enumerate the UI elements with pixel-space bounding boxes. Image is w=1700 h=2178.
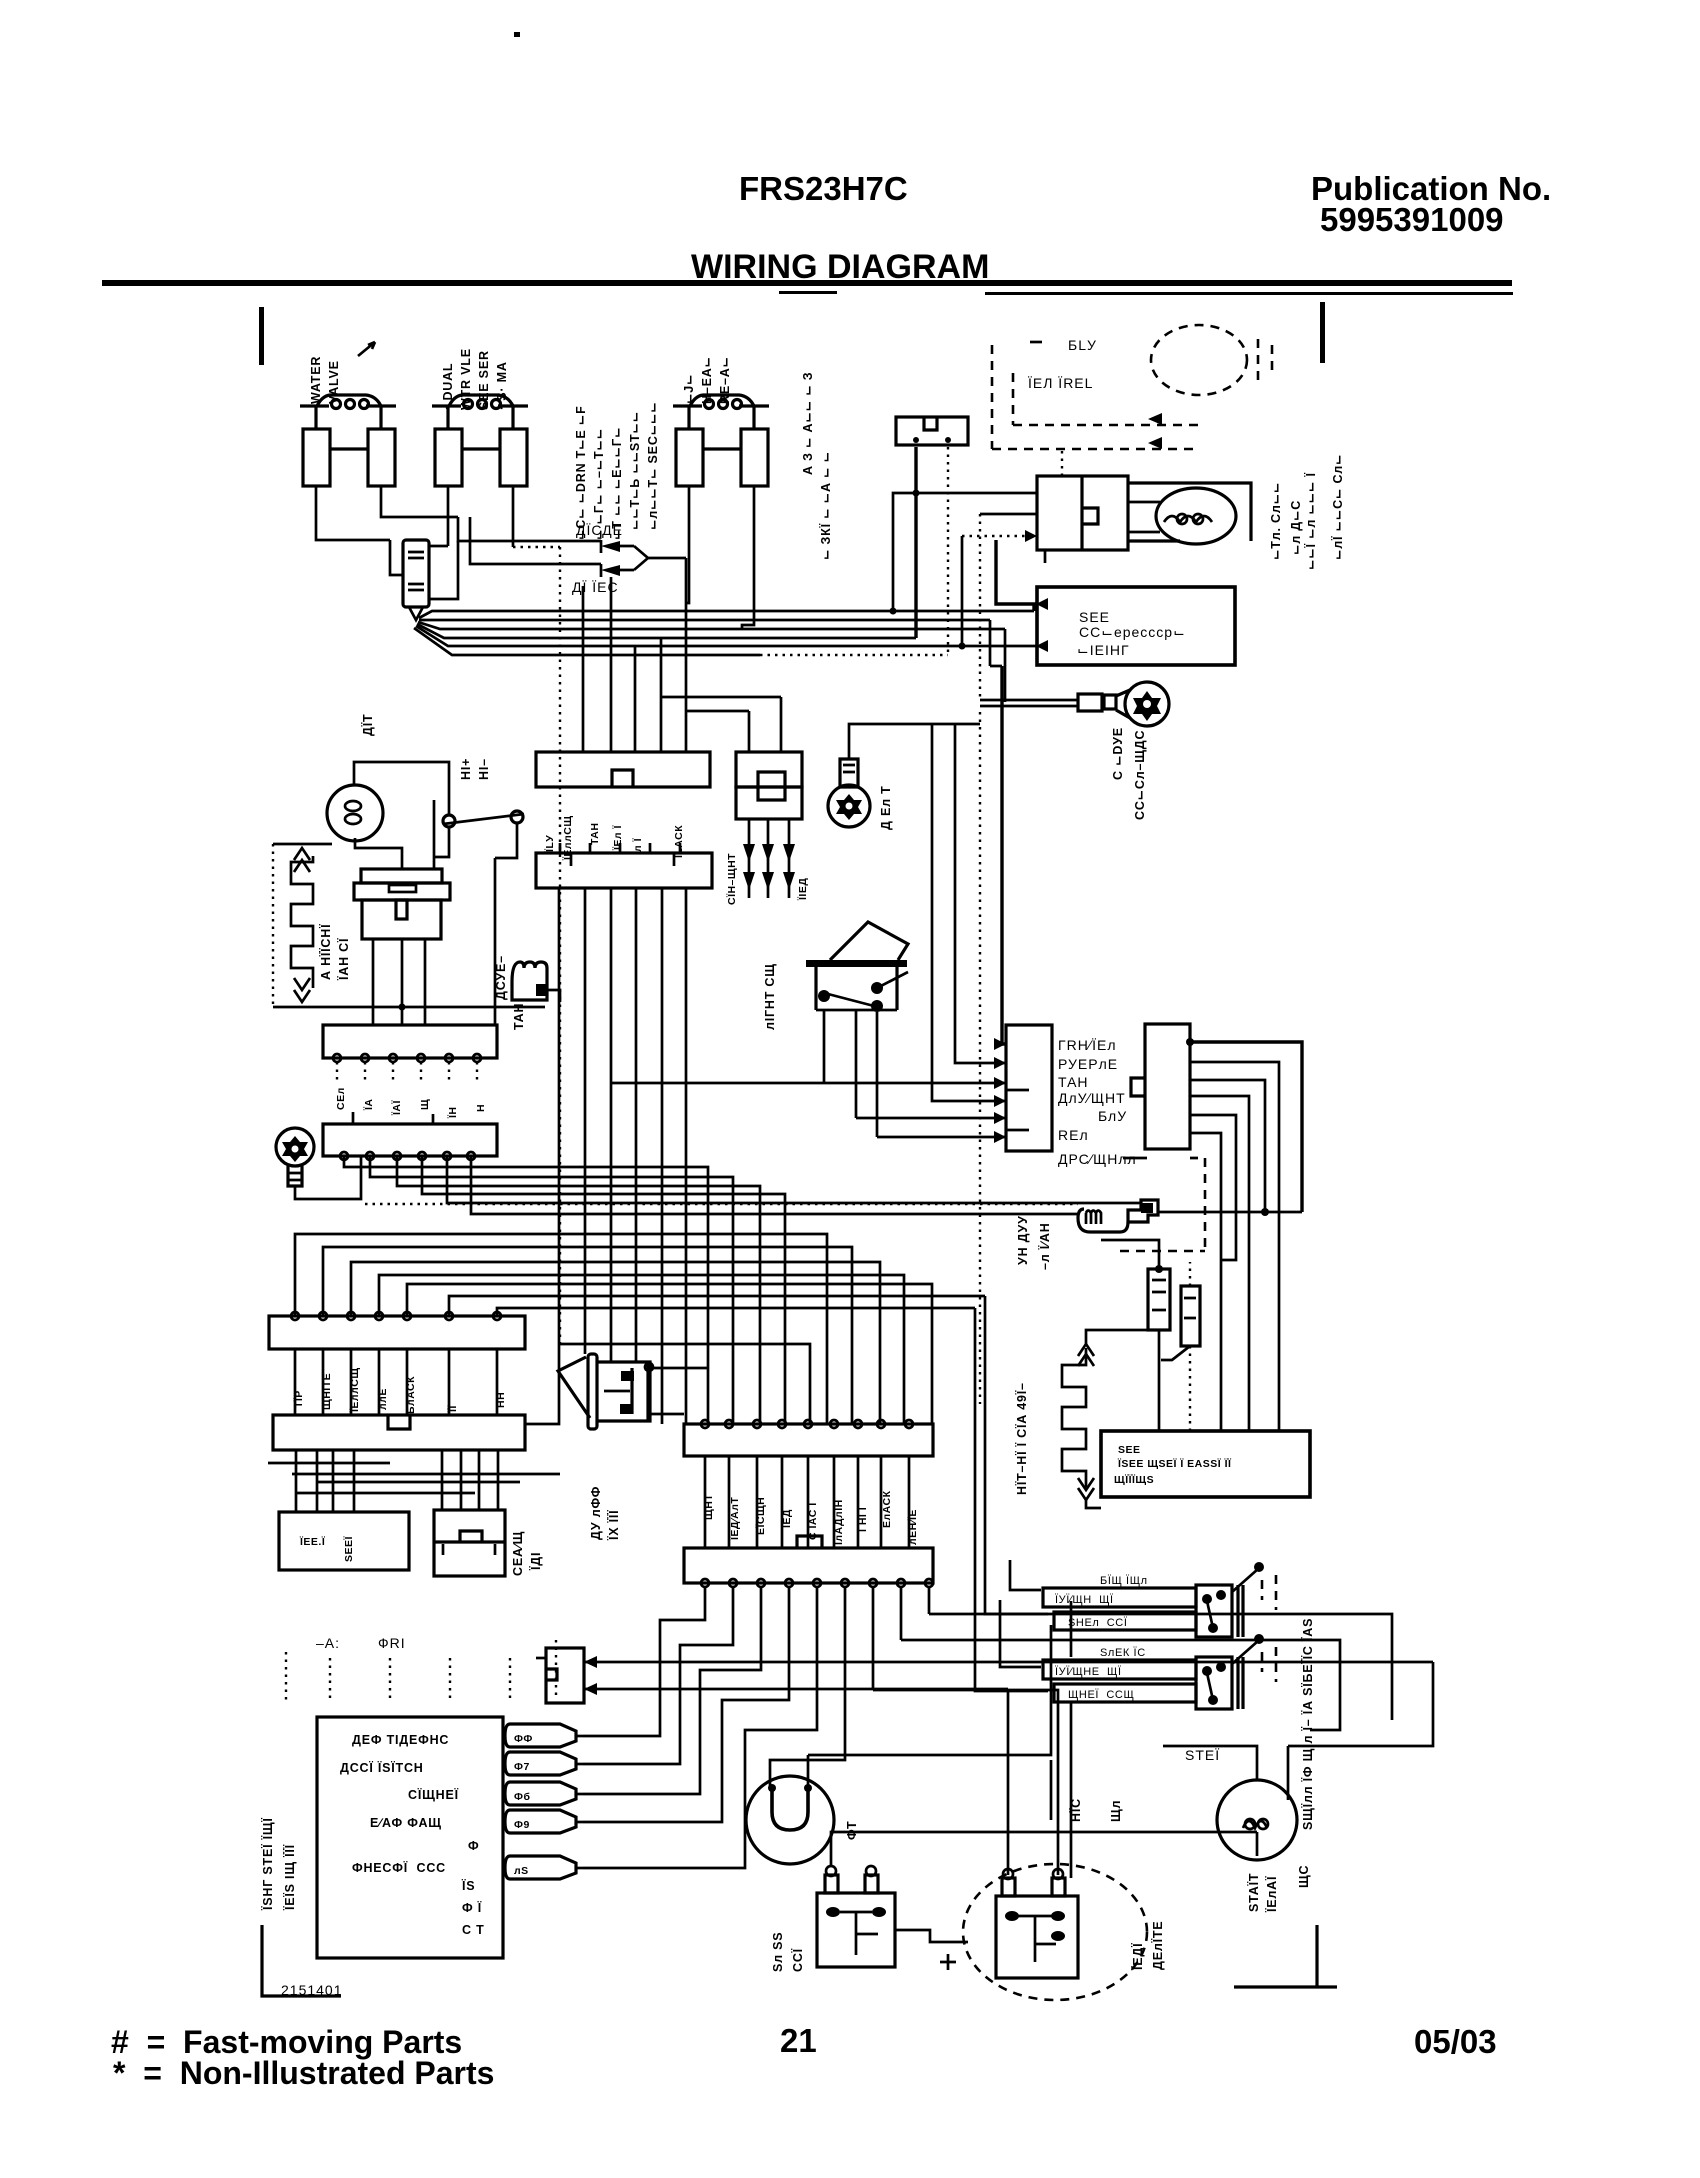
svg-text:С ⌙DУЕ: С ⌙DУЕ	[1111, 727, 1125, 780]
svg-text:ЇEЛ ЇRЕL: ЇEЛ ЇRЕL	[1028, 375, 1093, 391]
wire diode output to heater relay	[686, 510, 689, 603]
diode D2	[601, 564, 634, 577]
door switch assembly 2	[1043, 1634, 1276, 1709]
svg-text:ЇДI: ЇДI	[528, 1552, 543, 1571]
svg-text:Ф: Ф	[468, 1839, 479, 1853]
labels by arrows	[725, 853, 809, 905]
label AC line cord column	[801, 372, 1345, 570]
svg-text:SЕЕЇ: SЕЕЇ	[342, 1535, 355, 1562]
heater relay coil L3	[673, 395, 769, 510]
ice dispenser heater sawtooth	[1062, 1330, 1148, 1508]
nested wires upper set from strip A region	[295, 1204, 1078, 1424]
fuse small component 2	[1161, 1262, 1200, 1431]
svg-text:СС⌙Сл–ЩДС: СС⌙Сл–ЩДС	[1133, 730, 1147, 820]
svg-text:НI–: НI–	[477, 758, 491, 780]
wire valve2 legs	[429, 510, 513, 547]
svg-text:ДСУЕ–: ДСУЕ–	[494, 955, 508, 1000]
heater rail dashed	[273, 844, 545, 1011]
wire top bus into connector	[390, 540, 403, 575]
dash-dot harness wire	[559, 547, 561, 1344]
svg-text:–А:: –А:	[316, 1635, 340, 1651]
wire from valve legs down to fanout	[429, 541, 458, 599]
label overload	[771, 1932, 805, 1972]
svg-text:УН ДУУ: УН ДУУ	[1016, 1215, 1030, 1265]
svg-text:⌙J⌙: ⌙J⌙	[682, 374, 696, 404]
water valve coil L1	[300, 395, 396, 510]
dashed marks FA FRI	[286, 1635, 556, 1700]
ground screw left	[276, 1128, 361, 1199]
feeder verticals to left box	[611, 724, 1006, 1137]
svg-text:⌙ ЗКЇ ⌙ ⌙А ⌙ ⌙: ⌙ ЗКЇ ⌙ ⌙А ⌙ ⌙	[818, 451, 833, 560]
wires strip E to F verticals	[705, 1456, 909, 1548]
frame corner mark top-left	[259, 307, 264, 365]
center connector block upper	[536, 752, 710, 787]
svg-text:FRS23H7C: FRS23H7C	[739, 170, 908, 207]
labels under strip C	[292, 1367, 507, 1414]
color-code connector left box	[1006, 1025, 1052, 1151]
svg-text:ЇЅЕЕ ЩЅЕЇ Ї ЕАЅЅЇ ЇЇ: ЇЅЕЕ ЩЅЕЇ Ї ЕАЅЅЇ ЇЇ	[1117, 1457, 1232, 1470]
svg-text:ФФ: ФФ	[514, 1733, 533, 1745]
label swivel mullion column	[1300, 1618, 1315, 1830]
stray scan dot	[514, 32, 520, 37]
bold bottom wire	[831, 1832, 1257, 1866]
spade terminal F9	[505, 1810, 583, 1833]
svg-text:ЇЕЕ.Ї: ЇЕЕ.Ї	[299, 1535, 326, 1548]
svg-text:ЇАЇ: ЇАЇ	[390, 1100, 403, 1116]
svg-text:ЇА: ЇА	[362, 1099, 375, 1111]
svg-text:⌙IЕIНГ: ⌙IЕIНГ	[1077, 642, 1130, 658]
connector strip A	[323, 1025, 497, 1062]
labels under center block	[543, 815, 685, 861]
svg-text:SEE SER: SEE SER	[477, 350, 491, 410]
buzzer / signal device	[512, 962, 560, 1002]
wires from rocker down	[824, 1010, 877, 1137]
header rule second line	[985, 292, 1513, 295]
svg-text:ТАН: ТАН	[1058, 1074, 1089, 1090]
spade terminal LG	[505, 1856, 583, 1879]
big control box bottom-left	[317, 1717, 503, 1958]
mullion heater motor	[1217, 1768, 1297, 1860]
label light switch	[763, 963, 777, 1030]
svg-text:А НЇЇСНЇ: А НЇЇСНЇ	[318, 924, 333, 980]
svg-text:ДУ лФФ: ДУ лФФ	[589, 1486, 603, 1540]
svg-text:Щ: Щ	[419, 1099, 431, 1110]
label light shield	[459, 758, 491, 780]
svg-text:ЇН: ЇН	[446, 1107, 459, 1119]
svg-text:ЇIЕД: ЇIЕД	[796, 878, 809, 901]
dashed condenser fan box	[992, 325, 1272, 449]
small connector block (fan-out)	[403, 540, 429, 620]
staircase wires from strip F down-left	[583, 1587, 929, 1868]
svg-text:ЕлАСК: ЕлАСК	[881, 1490, 893, 1528]
label molded plug text block	[574, 402, 660, 540]
svg-text:ЇЕлАЇ: ЇЕлАЇ	[1264, 1876, 1279, 1913]
svg-text:ЅлЕК ЇС: ЅлЕК ЇС	[1100, 1647, 1146, 1659]
svg-text:ФТ: ФТ	[845, 1821, 859, 1840]
svg-text:С Т: С Т	[462, 1923, 485, 1937]
arrow into compressor box lower	[1036, 640, 1048, 652]
frame corner mark bottom-left	[262, 1925, 341, 1996]
nested fan-out wires from strip B down-right	[344, 1156, 1140, 1424]
svg-text:БLУ: БLУ	[1068, 337, 1097, 353]
header rule	[102, 280, 1512, 286]
svg-text:ЇАН СЇ: ЇАН СЇ	[336, 938, 351, 981]
svg-text:ЅНЕл ССЇ: ЅНЕл ССЇ	[1068, 1617, 1128, 1629]
fan-out wire bundle going right	[414, 611, 1037, 655]
small relay box above big box	[536, 1648, 584, 1703]
svg-text:05/03: 05/03	[1414, 2023, 1497, 2060]
wire color list	[1058, 1037, 1137, 1167]
svg-text:ФНЕСФЇ ССС: ФНЕСФЇ ССС	[352, 1860, 446, 1875]
wire overload to compressor	[895, 1930, 968, 1942]
label WATER VALVE	[309, 342, 375, 404]
long connector strip E	[684, 1420, 933, 1456]
box SEE dispenser small left	[279, 1512, 409, 1570]
svg-text:ЇЕл Ї: ЇЕл Ї	[611, 825, 624, 851]
label MTG CLIP	[1269, 482, 1303, 560]
svg-text:VALVE: VALVE	[327, 360, 341, 404]
SEE COMPRESSOR WIRING box	[1037, 587, 1235, 665]
overload protector	[817, 1866, 895, 1967]
dash-dot lead to lug	[979, 514, 981, 1404]
svg-text:БлУ: БлУ	[1098, 1108, 1127, 1124]
SEE ICE DISPENSER ASSY WIRING box	[1101, 1431, 1310, 1497]
svg-text:–л Ї∕АН: –л Ї∕АН	[1037, 1222, 1052, 1270]
svg-text:· S· MA: · S· MA	[495, 361, 509, 410]
defrost heater sawtooth left	[291, 848, 313, 1002]
heater ground crimp	[1078, 1200, 1302, 1232]
svg-text:ЅТЕЇ: ЅТЕЇ	[1185, 1747, 1220, 1763]
dual water valve coil L2	[432, 395, 528, 510]
door switch assembly 1	[1043, 1562, 1276, 1637]
svg-text:ЩЇЇЇЩЅ: ЩЇЇЇЩЅ	[1114, 1473, 1154, 1486]
svg-text:⌙⌙T⌙Ь ⌙⌙ST⌙⌙: ⌙⌙T⌙Ь ⌙⌙ST⌙⌙	[628, 411, 642, 530]
spade terminal F7	[505, 1752, 583, 1775]
svg-text:ДEФ ТIДЕФНС: ДEФ ТIДЕФНС	[352, 1733, 449, 1747]
svg-text:* = Non-Illustrated Parts: * = Non-Illustrated Parts	[113, 2055, 494, 2091]
wires strip C to D	[295, 1349, 497, 1415]
frame corner mark bottom-right	[1234, 1925, 1337, 1987]
bulb ground wire	[849, 724, 980, 759]
svg-text:Ѕл ЅЅ: Ѕл ЅЅ	[771, 1932, 785, 1972]
label red cap dashed	[1130, 1921, 1165, 1971]
svg-text:ЅЩЇлл ЇФ Щ л Ї– ЇА ЅЇБЕЇЇС ЇАЅ: ЅЩЇлл ЇФ Щ л Ї– ЇА ЅЇБЕЇЇС ЇАЅ	[1300, 1618, 1315, 1830]
two-part block right of center	[736, 752, 802, 819]
label defrost thermostat	[589, 1486, 621, 1541]
spade terminal F5	[505, 1724, 583, 1747]
label start relay	[1246, 1865, 1311, 1913]
compressor ground lug	[980, 682, 1169, 726]
label heater ground	[1016, 1215, 1052, 1270]
defrost timer	[354, 869, 450, 1025]
connector strip B	[323, 1124, 497, 1160]
svg-text:НЇТ–НЇ Ї СЇА 49Ї–: НЇТ–НЇ Ї СЇА 49Ї–	[1014, 1382, 1029, 1495]
center connector block lower	[536, 843, 712, 888]
svg-text:Ф9: Ф9	[514, 1819, 530, 1831]
svg-text:ФRI: ФRI	[378, 1635, 406, 1651]
evap light connector and bulb	[1037, 476, 1251, 550]
svg-text:ДЇТ: ДЇТ	[360, 714, 375, 736]
pin stubs strip A (dashed)	[337, 1062, 477, 1082]
label COMPRESSOR GROUND	[1111, 727, 1147, 820]
svg-text:ЇЕДЇ: ЇЕДЇ	[1130, 1943, 1145, 1971]
svg-text:ЇУЇ∕ЩНЕ ЩЇ: ЇУЇ∕ЩНЕ ЩЇ	[1055, 1666, 1122, 1678]
svg-text:⌙C⌙ ⌙DRN T⌙E ⌙F: ⌙C⌙ ⌙DRN T⌙E ⌙F	[574, 405, 588, 540]
svg-text:ТАН: ТАН	[512, 1003, 526, 1030]
wire diode joined output	[634, 546, 648, 570]
icemaker connector box	[434, 1510, 505, 1576]
frame corner mark top-right	[1320, 302, 1325, 363]
svg-text:лЅ: лЅ	[514, 1865, 529, 1877]
svg-text:РУЕРлЕ: РУЕРлЕ	[1058, 1056, 1118, 1072]
grey wire to mullion motor	[1163, 1662, 1433, 1780]
svg-text:• DUAL: • DUAL	[441, 363, 455, 410]
svg-text:Н: Н	[475, 1104, 487, 1112]
svg-text:WATER: WATER	[309, 356, 323, 404]
plus mark	[940, 1954, 956, 1970]
svg-text:ЩС: ЩС	[1297, 1865, 1311, 1888]
label icemaker	[511, 1531, 543, 1576]
long vertical harness wires	[525, 888, 686, 1424]
svg-text:ЇЕЇЅ IЩ ЇЇЇ: ЇЕЇЅ IЩ ЇЇЇ	[282, 1844, 297, 1911]
svg-text:ДЇСДЕ: ДЇСДЕ	[576, 522, 623, 538]
svg-text:ГRН∕ЇEл: ГRН∕ЇEл	[1058, 1037, 1117, 1053]
wires into left box with arrows	[994, 1038, 1006, 1143]
svg-text:СЇЩНЕЇ: СЇЩНЕЇ	[408, 1787, 459, 1802]
svg-text:ЅТАЇТ: ЅТАЇТ	[1246, 1873, 1261, 1912]
svg-text:⌙лЇ ⌙⌙С⌙ Сл⌙: ⌙лЇ ⌙⌙С⌙ Сл⌙	[1330, 454, 1345, 560]
svg-text:Ф Ї: Ф Ї	[462, 1900, 482, 1915]
labels under strip A	[335, 1087, 487, 1119]
long connector strip F	[684, 1536, 933, 1587]
left connector strip D	[273, 1415, 525, 1450]
svg-text:⌙Tл. Сл⌙⌙: ⌙Tл. Сл⌙⌙	[1269, 482, 1283, 560]
svg-text:RЕл: RЕл	[1058, 1127, 1089, 1143]
freezer door switch lever	[434, 800, 524, 1025]
svg-text:БЇЩ ЇЩл: БЇЩ ЇЩл	[1100, 1575, 1148, 1587]
svg-text:Д Ел Т: Д Ел Т	[879, 785, 893, 830]
svg-text:＿2151401: ＿2151401	[266, 1982, 343, 1998]
svg-text:5995391009: 5995391009	[1320, 201, 1504, 238]
alarm horn speaker	[558, 1354, 708, 1429]
svg-text:SЕЕ: SЕЕ	[1079, 609, 1110, 625]
svg-text:Щл: Щл	[1109, 1800, 1123, 1822]
left connector strip C	[269, 1312, 525, 1349]
svg-text:СЕА∕Щ: СЕА∕Щ	[511, 1531, 525, 1576]
vertical wires lower right	[1051, 1700, 1392, 1878]
svg-text:ТАН: ТАН	[589, 823, 601, 845]
rocker light switch	[806, 922, 908, 1012]
label heater relay	[682, 356, 732, 404]
wires from small box right	[584, 1656, 1433, 1695]
svg-text:Фб: Фб	[514, 1791, 530, 1803]
svg-text:СЕл: СЕл	[335, 1087, 347, 1110]
svg-text:ДлУ∕ЩНТ: ДлУ∕ЩНТ	[1058, 1090, 1126, 1106]
labels H2O NL	[1068, 1798, 1123, 1822]
color-code connector right box	[1131, 1024, 1190, 1149]
svg-text:ЅЕЕ: ЅЕЕ	[1118, 1444, 1141, 1456]
svg-text:RЕ–А⌙: RЕ–А⌙	[718, 356, 732, 404]
svg-text:ДССЇ ЇЅЇТСН: ДССЇ ЇЅЇТСН	[340, 1760, 424, 1775]
svg-text:ЇУЇ∕ЩН ЩЇ: ЇУЇ∕ЩН ЩЇ	[1055, 1594, 1114, 1606]
labels under strip E	[703, 1490, 919, 1546]
label defrost timer rotated	[318, 924, 351, 981]
svg-text:ДЕлЇТЕ: ДЕлЇТЕ	[1150, 1921, 1165, 1970]
label left of big box	[260, 1817, 297, 1911]
wires into two-part block from harness	[661, 697, 781, 752]
svg-text:WTR VLE: WTR VLE	[459, 348, 473, 410]
svg-text:лIГНТ СЩ: лIГНТ СЩ	[763, 963, 777, 1030]
svg-text:ЇLУ: ЇLУ	[543, 835, 556, 853]
svg-text:21: 21	[780, 2022, 817, 2059]
dashed outline near heater ground	[1120, 1158, 1205, 1251]
arrow into compressor box upper	[1036, 598, 1048, 610]
wires door switches to left	[808, 1296, 1071, 1786]
wires to overload and compressor area	[873, 1614, 1392, 1875]
svg-text:ССЇ: ССЇ	[790, 1948, 805, 1972]
fuse small component 1	[1101, 1240, 1170, 1431]
svg-text:СС⌙ерессср⌙: СС⌙ерессср⌙	[1079, 624, 1186, 640]
svg-text:Н–ЕА⌙: Н–ЕА⌙	[700, 356, 714, 404]
wire valve1 to bus	[316, 510, 458, 540]
svg-text:ЇЅ: ЇЅ	[461, 1878, 475, 1893]
svg-text:л Ї: л Ї	[631, 837, 644, 852]
freezer light bulb	[327, 762, 449, 869]
label DUAL WATER VALVE SEE SERIES	[441, 348, 509, 410]
svg-text:Ф7: Ф7	[514, 1761, 530, 1773]
svg-text:А З ⌙ А⌙⌙ ⌙ З: А З ⌙ А⌙⌙ ⌙ З	[801, 372, 815, 475]
svg-text:ЩНЕЇ ССЩ: ЩНЕЇ ССЩ	[1068, 1689, 1134, 1701]
connector plug top right	[896, 417, 968, 445]
harness verticals into block T	[583, 558, 686, 752]
compressor relay box	[996, 1869, 1078, 1978]
wire bundle turns to loads	[890, 490, 1038, 1045]
defrost light bulb symbol	[828, 759, 870, 827]
arrows below block	[743, 819, 795, 898]
wire relay L3 right leg down	[742, 510, 754, 629]
svg-text:⌙л Д⌙С: ⌙л Д⌙С	[1289, 500, 1303, 555]
wires strip D to boxes below	[268, 1450, 560, 1512]
svg-text:Е∕АФ ФАЩ: Е∕АФ ФАЩ	[370, 1816, 442, 1830]
svg-text:⌙л⌙⌙T⌙ SЕС⌙⌙⌙: ⌙л⌙⌙T⌙ SЕС⌙⌙⌙	[646, 402, 660, 530]
dotted link up to dashed box	[1061, 449, 1063, 476]
compressor dashed ellipse	[963, 1864, 1147, 2000]
wires out of right box nested	[1186, 1038, 1302, 1431]
wire diode feeds	[458, 517, 601, 564]
connector plug leads down to bundle	[916, 447, 948, 655]
spade terminal F6	[505, 1782, 583, 1805]
svg-text:ЇХ ЇЇЇ: ЇХ ЇЇЇ	[606, 1510, 621, 1541]
mold heater lamp	[746, 1776, 834, 1864]
svg-text:СЇН–ЩНТ: СЇН–ЩНТ	[725, 853, 738, 905]
svg-text:НI+: НI+	[459, 758, 473, 780]
diode D1	[601, 540, 634, 553]
svg-text:ЇЅНГ ЅТЕЇ ЇЩЇ: ЇЅНГ ЅТЕЇ ЇЩЇ	[260, 1817, 275, 1911]
svg-text:⌙⌙Ї ⌙л ⌙⌙⌙ Ї: ⌙⌙Ї ⌙л ⌙⌙⌙ Ї	[1303, 472, 1318, 570]
